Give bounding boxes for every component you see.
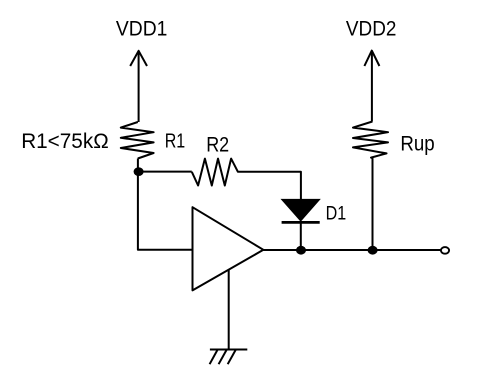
svg-text:R1: R1 [165, 129, 186, 152]
svg-text:Rup: Rup [400, 132, 434, 156]
svg-text:VDD2: VDD2 [346, 17, 397, 41]
svg-text:R1<75kΩ: R1<75kΩ [21, 129, 109, 153]
svg-text:D1: D1 [326, 203, 347, 225]
svg-text:VDD1: VDD1 [116, 17, 167, 41]
svg-text:R2: R2 [206, 133, 229, 157]
